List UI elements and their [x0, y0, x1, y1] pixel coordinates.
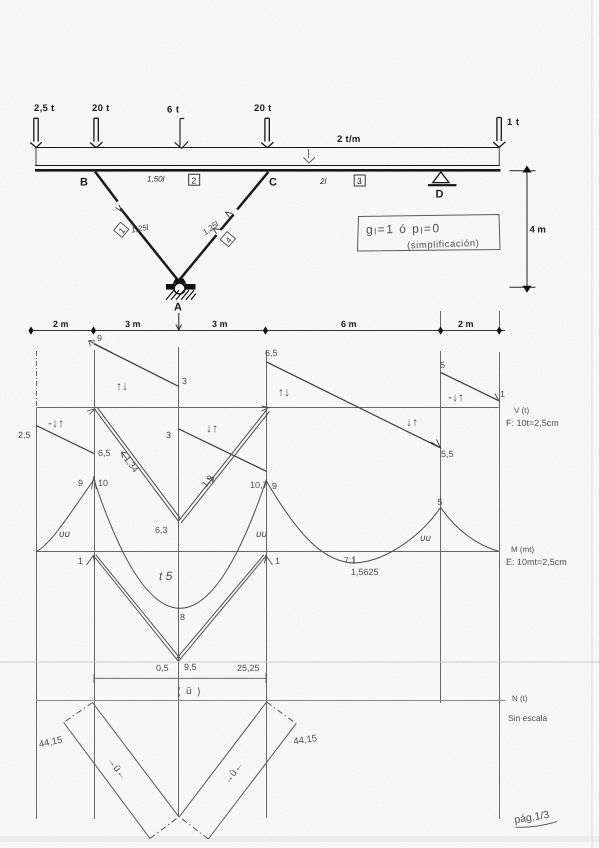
truss member B-A (with break marks): [95, 172, 178, 281]
beam bottom thick line: [35, 169, 501, 172]
grid line x=94 (node B): [94, 350, 96, 819]
svg-text:1,50l: 1,50l: [147, 175, 165, 184]
N baseline: [36, 700, 505, 702]
svg-text:3 m: 3 m: [212, 319, 228, 329]
member A-C boxed 4: [220, 232, 236, 247]
svg-text:4 m: 4 m: [530, 225, 546, 236]
svg-text:B: B: [80, 177, 88, 189]
arrowhead at D on V line: [431, 439, 441, 448]
M member C start wedge: [265, 556, 273, 566]
svg-text:υυ: υυ: [256, 529, 267, 540]
svg-text:-↓↑: -↓↑: [48, 416, 64, 430]
member A-C end arrow tick: [262, 406, 270, 411]
truss member A-C (with break marks): [179, 172, 269, 281]
member B-A label: boxed 1 and 1,25l: [112, 218, 149, 239]
V segment end..B (-2,5 to -6,5): [36, 426, 94, 454]
svg-text:↓↑: ↓↑: [206, 421, 218, 435]
svg-text:1 t: 1 t: [507, 117, 520, 128]
svg-text:25,25: 25,25: [237, 663, 260, 673]
hand arrow on load line: [304, 149, 316, 163]
svg-text:V (t): V (t): [514, 406, 529, 415]
grid line x=440 (support D): [440, 311, 442, 331]
svg-text:↑↓: ↑↓: [116, 379, 128, 393]
left end drop tick: [35, 148, 37, 165]
svg-text:5: 5: [440, 360, 445, 370]
member arrow mark on B-A axis: [122, 452, 128, 460]
V baseline: [37, 407, 499, 409]
svg-text:1,5625: 1,5625: [351, 567, 379, 577]
distributed load line 2 t/m: [36, 147, 499, 149]
hand scribble q with arrow: [89, 341, 113, 353]
svg-text:2 m: 2 m: [53, 319, 69, 329]
svg-text:⟩: ⟩: [197, 687, 201, 698]
beam top thin line: [35, 165, 500, 167]
M sag curve B..C: [94, 480, 267, 609]
M member B start wedge: [87, 556, 95, 566]
svg-text:9: 9: [78, 478, 83, 488]
svg-text:gl=1 ó pl=0: gl=1 ó pl=0: [366, 221, 441, 236]
M member line C-A (double): [176, 555, 266, 662]
svg-text:3: 3: [166, 430, 171, 440]
svg-text:1: 1: [275, 556, 280, 566]
dim diamond x=499.2: [497, 326, 502, 334]
load arrow 1t (right end): [493, 118, 505, 148]
M baseline: [37, 551, 500, 553]
svg-text:-↓↑: -↓↑: [448, 390, 464, 404]
N band member C-A: [179, 702, 296, 839]
node A pointer arrow to dim line: [176, 313, 182, 330]
svg-text:ū: ū: [186, 686, 192, 697]
V segment A..C (-3 to -9): [179, 429, 267, 471]
M curve end..B (parabola): [36, 480, 94, 552]
svg-text:9: 9: [272, 481, 277, 491]
M curve C..D: [266, 481, 440, 563]
svg-text:M (mt): M (mt): [511, 545, 534, 554]
N band member B-A: [64, 703, 179, 839]
svg-text:Sin escala: Sin escala: [508, 713, 547, 723]
svg-text:5: 5: [438, 497, 443, 507]
svg-text:1: 1: [500, 389, 505, 399]
svg-text:10: 10: [98, 478, 108, 488]
svg-text:9: 9: [97, 333, 102, 343]
grid line x=36 (left end, dash-dot above V baseline): [36, 351, 38, 819]
svg-text:D: D: [436, 189, 444, 201]
support D triangle: [433, 172, 449, 183]
load arrow 2,5t: [30, 118, 42, 147]
svg-text:6,5: 6,5: [265, 348, 278, 358]
svg-text:20 t: 20 t: [92, 103, 110, 114]
load arrow 20t (at B): [90, 118, 102, 147]
svg-text:N (t): N (t): [512, 694, 528, 703]
dimension chain line: [29, 330, 505, 332]
svg-text:1: 1: [78, 556, 83, 566]
svg-text:υυ: υυ: [59, 529, 70, 540]
svg-text:2 t/m: 2 t/m: [337, 134, 361, 145]
svg-text:0,5: 0,5: [156, 663, 169, 673]
M peak arrow at B: [92, 476, 97, 489]
boxed bar number 3: [354, 175, 365, 186]
member B-A start arrow tick: [87, 409, 95, 415]
support A: pin circle: [174, 283, 185, 294]
svg-text:↓↑: ↓↑: [406, 415, 418, 429]
svg-text:6 t: 6 t: [167, 105, 180, 116]
V segment D..end (+5 to +1): [441, 372, 499, 400]
load arrow 6t (thin, at A axis): [175, 119, 189, 149]
svg-text:6,5: 6,5: [98, 448, 111, 458]
V segment B..A (+9 to +3): [94, 344, 179, 387]
svg-text:6,3: 6,3: [155, 525, 168, 535]
support A: ground bar: [166, 284, 196, 290]
u-bar hand symbol: [177, 686, 201, 698]
svg-text:F: 10t=2,5cm: F: 10t=2,5cm: [506, 418, 559, 428]
svg-text:3: 3: [357, 176, 362, 186]
svg-text:t 5: t 5: [159, 569, 173, 583]
svg-text:2 m: 2 m: [458, 319, 474, 329]
svg-text:9,5: 9,5: [184, 662, 197, 672]
svg-text:E: 10mt=2,5cm: E: 10mt=2,5cm: [506, 557, 567, 567]
grid line x=499 (right end): [499, 311, 501, 331]
svg-text:2,5 t: 2,5 t: [34, 103, 55, 114]
svg-text:3: 3: [182, 376, 187, 386]
right end drop tick: [498, 148, 500, 165]
svg-text:3 m: 3 m: [125, 319, 141, 329]
inclined member axis B-A in V diagram (double line): [94, 408, 181, 522]
member arrow mark on A-C axis: [207, 477, 214, 486]
support A: hatching: [166, 290, 196, 300]
u-bar dimension line: [94, 674, 266, 684]
faint right edge scan line: [591, 0, 593, 848]
svg-text:C: C: [269, 177, 277, 189]
svg-text:↑↓: ↑↓: [278, 385, 290, 399]
inclined member axis A-C in V diagram (double line): [178, 410, 269, 524]
svg-text:⟨: ⟨: [177, 687, 181, 698]
svg-text:A: A: [174, 302, 182, 314]
grid line x=266 (node C): [266, 350, 268, 818]
svg-text:8: 8: [180, 612, 185, 622]
support A: pads: [173, 279, 187, 284]
dimension 4m arrowheads: [523, 166, 532, 173]
svg-text:20 t: 20 t: [254, 103, 272, 114]
V segment C..D (+6,5 to -5,8): [266, 362, 440, 448]
svg-text:2l: 2l: [319, 177, 326, 186]
support D base line: [428, 184, 457, 186]
handwritten note box: [358, 215, 501, 252]
faint scan smudge bottom: [0, 836, 599, 842]
member B-A break tick: [116, 205, 123, 212]
arrowhead at right end on V line: [490, 394, 499, 401]
dim diamond x=265.5: [263, 326, 268, 334]
svg-text:2: 2: [192, 175, 197, 185]
member A-C break ticks: [226, 212, 233, 218]
dim diamond x=93.5: [91, 326, 96, 334]
faint horizontal pencil line y=662: [0, 661, 599, 663]
dimension 4m line: [510, 171, 536, 287]
M member line B-A (double): [93, 555, 181, 662]
svg-text:2,5: 2,5: [18, 430, 31, 440]
load arrow 20t (at C): [261, 118, 273, 147]
svg-text:5,5: 5,5: [441, 449, 454, 459]
svg-text:υυ: υυ: [420, 533, 431, 544]
page number pag 1/3: [513, 808, 557, 830]
dim diamond x=31: [28, 326, 33, 334]
svg-text:6 m: 6 m: [341, 319, 357, 329]
grid line x=179 (node A): [178, 347, 180, 817]
dim diamond x=440.6: [438, 326, 443, 334]
M curve D..end: [441, 508, 499, 552]
boxed bar number 2: [189, 174, 200, 185]
